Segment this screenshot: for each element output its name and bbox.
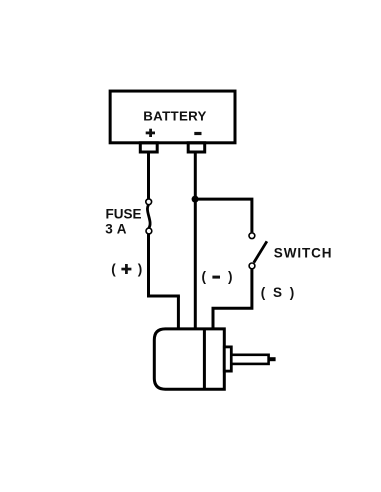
- svg-text:3 A: 3 A: [105, 221, 127, 236]
- terminal post -: [188, 143, 205, 152]
- fuse F1: [146, 199, 152, 234]
- motor M1 body: [154, 329, 224, 389]
- terminal post +: [140, 143, 157, 152]
- wire switch to motor (S): [213, 269, 252, 331]
- wire down to motor (+): [177, 296, 180, 330]
- svg-text:( S ): ( S ): [261, 285, 297, 300]
- svg-text:BATTERY: BATTERY: [143, 109, 206, 124]
- switch S1 top contact: [249, 233, 255, 239]
- wire corner horizontal: [147, 295, 180, 298]
- motor divider: [203, 329, 206, 389]
- switch S1 bottom contact: [249, 263, 255, 269]
- wire junction to switch: [195, 199, 252, 232]
- svg-text:FUSE: FUSE: [106, 206, 142, 221]
- wire - terminal to motor: [194, 153, 197, 330]
- label - terminal: [194, 132, 201, 135]
- svg-text:SWITCH: SWITCH: [274, 245, 333, 260]
- wire fuse to corner: [147, 234, 150, 298]
- label + terminal: [146, 129, 155, 137]
- battery B1: [110, 91, 235, 143]
- junction node: [192, 196, 199, 203]
- motor shaft tip: [269, 357, 275, 361]
- wire + terminal to fuse: [147, 153, 150, 198]
- motor shaft: [231, 355, 268, 364]
- motor shaft flange: [224, 347, 231, 371]
- switch S1 lever: [254, 241, 267, 262]
